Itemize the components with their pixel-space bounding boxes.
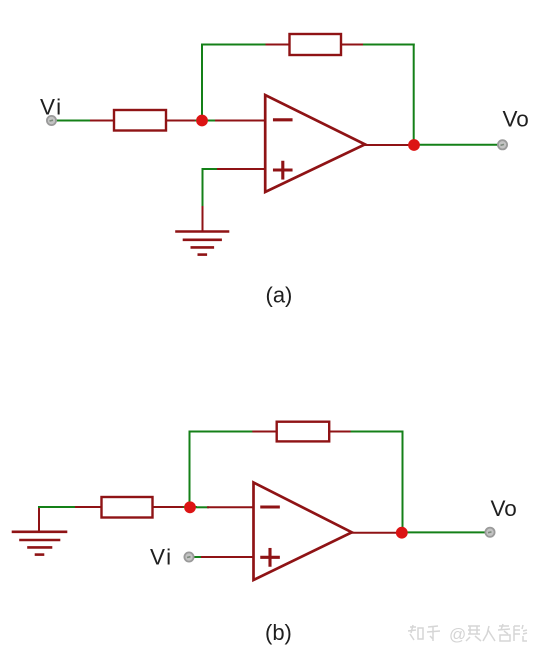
svg-text:Vi: Vi — [40, 94, 63, 119]
svg-text:Vo: Vo — [491, 496, 517, 521]
svg-text:Vo: Vo — [503, 107, 529, 132]
svg-text:@: @ — [449, 625, 466, 644]
svg-text:(b): (b) — [265, 620, 292, 645]
svg-text:Vi: Vi — [150, 545, 173, 570]
svg-text:(a): (a) — [266, 283, 293, 308]
